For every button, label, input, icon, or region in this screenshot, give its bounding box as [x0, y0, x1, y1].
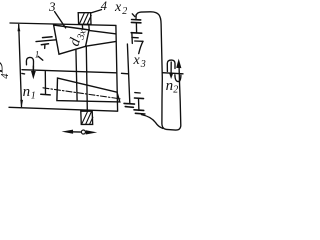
svg-text:1: 1 [31, 90, 36, 101]
glyph 7 leg [139, 41, 143, 53]
ring contact stub right [88, 25, 90, 31]
bearing bar below [41, 43, 48, 46]
cone 3 axis stub left [36, 40, 56, 42]
cone 2 body [57, 78, 120, 102]
adjusting rod x3 [127, 44, 129, 103]
big connector line A+B loop [136, 12, 181, 130]
svg-text:n: n [166, 78, 174, 94]
connector up arrowhead [176, 59, 181, 69]
hanger bar [41, 93, 50, 96]
shift arrow left head [62, 130, 74, 134]
x2 stem [135, 23, 137, 33]
glyph 7 bar [135, 40, 143, 42]
label d3x [67, 26, 89, 49]
svg-text:3: 3 [140, 59, 146, 70]
ring band right line [86, 47, 87, 111]
n2 cup arc [175, 75, 181, 82]
rod foot bar 2 [125, 106, 133, 109]
bearing bar above [43, 36, 53, 39]
label 1 tick [38, 56, 43, 60]
svg-text:4: 4 [0, 73, 11, 79]
ring 4 bottom section block [81, 111, 93, 124]
leader label 3 [55, 12, 66, 28]
cone 3 nose upper line [89, 30, 116, 33]
ring contact stub left [81, 24, 83, 29]
dimension arrow down [20, 100, 23, 108]
x3 curve to loop [142, 115, 163, 129]
x2 connector tick [132, 14, 135, 17]
ring 4 top inner line [10, 23, 116, 25]
n2 down arrow head [169, 73, 173, 79]
ring 4 bottom inner line [9, 107, 118, 111]
rod foot bar 1 [124, 102, 134, 105]
cone 3 nose lower line [86, 42, 116, 47]
cone 3 body [54, 25, 89, 54]
svg-text:2: 2 [173, 84, 178, 95]
x2 lower bar [131, 32, 142, 35]
hatch bottom block [82, 112, 93, 124]
n2 down arrow shaft [170, 62, 172, 74]
hanger vertical [44, 72, 46, 94]
shaft 1 stub right of frame [122, 72, 129, 75]
left tick on shaft1 [22, 72, 25, 75]
svg-text:D: D [0, 60, 6, 74]
n2 shaft [162, 73, 183, 74]
ring 4 top section block [78, 13, 91, 25]
shaft 1 [22, 70, 116, 73]
n2 ccw arc [167, 60, 175, 71]
I-beam bottom bar [134, 109, 144, 112]
svg-text:n: n [23, 84, 31, 100]
rotation arrow n1 shaft [32, 66, 34, 74]
label D4 [0, 60, 6, 74]
x2 connector stem [135, 15, 137, 19]
dimension D4 line [19, 25, 22, 107]
shift arrow circle [81, 130, 85, 134]
svg-text:4: 4 [101, 0, 107, 13]
svg-text:2: 2 [122, 6, 127, 17]
cone 2 axis dash-dot [43, 88, 120, 99]
I-beam stem [138, 99, 140, 111]
leader label 4 [91, 10, 102, 13]
svg-text:1: 1 [35, 50, 40, 60]
I-beam top bar [135, 97, 144, 100]
corner vertical [131, 34, 133, 44]
shift arrow right head [86, 130, 98, 134]
rotation arrow n1 arc [26, 57, 33, 70]
svg-text:3: 3 [48, 0, 56, 14]
shift arrow line [71, 131, 88, 133]
svg-text:x: x [133, 53, 141, 68]
rotation arrow n1 head [31, 71, 36, 79]
svg-text:x: x [114, 0, 122, 15]
bearing tick [44, 44, 46, 48]
I-beam extra bar [135, 112, 145, 115]
dimension arrow up [18, 23, 21, 31]
cone 2 shaft stub [135, 92, 140, 94]
hatch top block [79, 13, 91, 24]
right frame vertical [116, 26, 118, 111]
ring band left line [76, 49, 77, 100]
x2 friction bar 2 [131, 21, 141, 23]
x2 friction bar 1 [132, 19, 141, 21]
corner tick [132, 36, 138, 38]
